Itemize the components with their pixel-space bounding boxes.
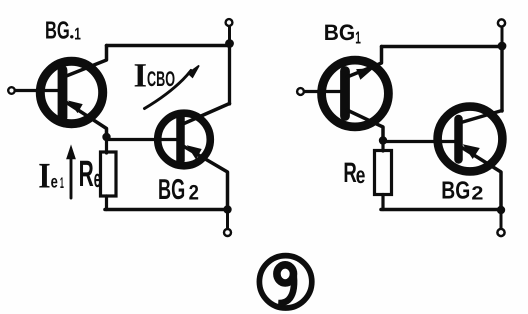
BG2 base bar [176, 118, 185, 161]
wire junction to resistor (right) [381, 141, 384, 151]
BG1 base bar (right) [340, 71, 350, 116]
resistor Re (right) [375, 151, 392, 195]
output terminal top (right circuit) [498, 19, 505, 26]
output terminal top (left circuit) [226, 19, 233, 26]
transistor BG1 (right) envelope [322, 60, 389, 127]
node: top-right junction (left circuit) [225, 39, 234, 48]
BG2 emitter line (right) [461, 147, 501, 206]
svg-text:1: 1 [355, 27, 361, 47]
wire right rail down (right circuit) [500, 46, 503, 111]
svg-text:BG: BG [324, 20, 356, 45]
svg-text:BG: BG [45, 17, 70, 44]
BG1 bottom line to junction [347, 110, 383, 141]
resistor Re (left) [101, 152, 117, 196]
label BG2 (right) [441, 177, 483, 204]
svg-text:e: e [51, 171, 58, 191]
label Re (right) [343, 156, 365, 188]
svg-text:e: e [356, 162, 366, 188]
label BG1 (right) [324, 20, 361, 47]
BG1 top line (emitter, NPN arrow out) [347, 47, 382, 78]
transistor BG1 (left) envelope [40, 61, 102, 123]
wire BG1 emitter to BG2 base [107, 138, 178, 141]
wire input to BG1 base [15, 89, 58, 92]
Ie1 current arrow [70, 157, 73, 198]
wire top rail (left circuit) [107, 44, 230, 48]
wire bottom rail (left circuit) [105, 208, 228, 212]
BG1 emitter arrow (PNP, toward base) [70, 102, 82, 112]
node: BG1/Re/BG2-base junction (right) [379, 136, 387, 144]
BG1 collector line [65, 46, 107, 77]
wire junction to resistor [105, 140, 108, 153]
wire junction to bottom terminal (right) [500, 210, 503, 228]
wire junction to bottom terminal [226, 210, 229, 229]
wire bottom rail (right circuit) [381, 208, 501, 212]
label Icbo [134, 58, 176, 95]
svg-text:R: R [343, 156, 356, 188]
BG2 emitter arrow (PNP) [189, 147, 201, 159]
svg-text:2: 2 [471, 184, 483, 205]
BG1 emitter arrow (right, outward) [357, 69, 371, 78]
output terminal bottom (right circuit) [497, 229, 504, 236]
BG2 emitter line [184, 147, 228, 207]
BG2 base bar (right) [454, 119, 463, 160]
input terminal (right circuit) [297, 88, 304, 95]
node: bottom-right junction (left circuit) [223, 205, 231, 213]
wire top rail (right circuit) [382, 45, 503, 48]
node: BG1 emitter junction [102, 133, 110, 141]
wire junction to top terminal (right) [501, 28, 504, 47]
svg-text:BG: BG [158, 174, 185, 206]
wire junction to top terminal [228, 27, 231, 45]
label BG1 (left) [45, 17, 81, 44]
svg-text:BG: BG [441, 177, 470, 204]
input terminal (left circuit) [8, 87, 15, 94]
BG2 emitter arrow (right, PNP) [465, 146, 479, 158]
transistor BG1 base bar [58, 70, 68, 118]
svg-text:2: 2 [189, 181, 199, 204]
wire right rail down to BG2 collector [228, 45, 231, 105]
wire resistor to bottom rail (right) [381, 195, 384, 210]
wire resistor to bottom rail [105, 196, 108, 210]
label Re (left) [79, 153, 101, 194]
label BG2 (left) [158, 174, 199, 206]
wire input to BG1 base (right) [305, 90, 342, 93]
BG2 collector line (right) [461, 111, 502, 123]
node: top-right junction (right circuit) [498, 42, 507, 51]
Icbo arrowhead [188, 66, 199, 78]
svg-text:1: 1 [60, 175, 64, 192]
svg-text:R: R [79, 153, 94, 194]
figure number 9 [277, 265, 294, 303]
svg-text:1: 1 [74, 25, 81, 44]
output terminal bottom (left circuit) [224, 229, 231, 236]
wire junction to BG2 base (right) [383, 140, 456, 143]
BG1 emitter line [65, 102, 107, 141]
BG2 collector line [184, 104, 230, 124]
svg-text:I: I [134, 58, 148, 95]
svg-text:CBO: CBO [147, 68, 175, 91]
node: bottom-right junction (right circuit) [497, 206, 505, 214]
label Ie1 [38, 155, 64, 195]
transistor BG2 (right) envelope [438, 107, 503, 172]
transistor BG2 (left) envelope [158, 113, 211, 166]
Icbo arrow [145, 71, 192, 109]
svg-text:I: I [38, 155, 50, 195]
figure number circle [259, 256, 311, 308]
